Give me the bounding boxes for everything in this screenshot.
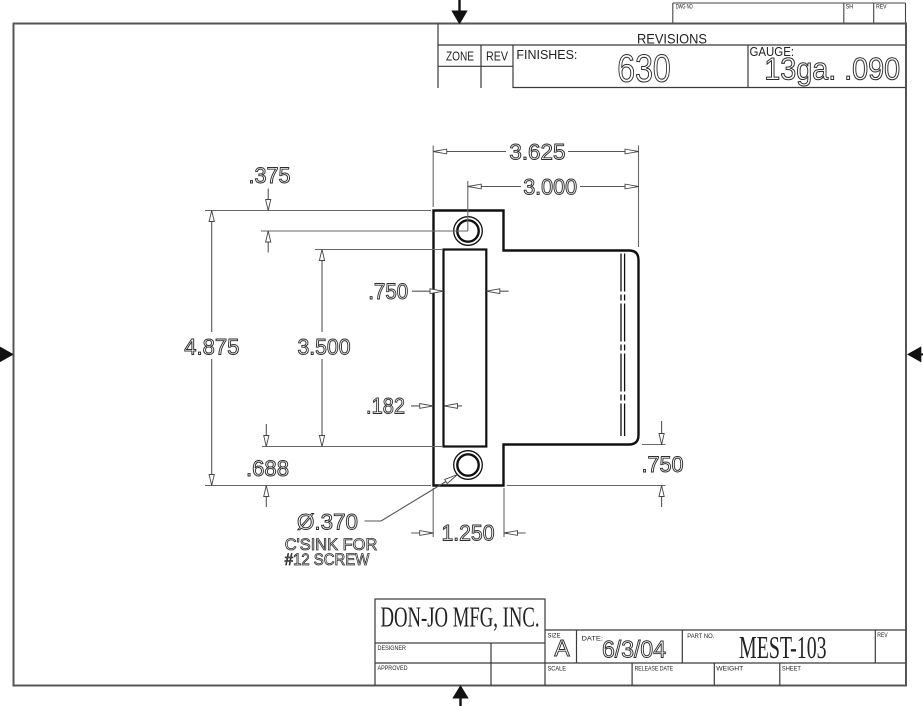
svg-text:ZONE: ZONE	[446, 50, 474, 64]
svg-text:SCALE: SCALE	[548, 666, 567, 673]
svg-text:APPROVED: APPROVED	[378, 665, 408, 672]
svg-text:SH: SH	[846, 5, 854, 11]
svg-text:3.500: 3.500	[298, 335, 351, 360]
svg-text:SHEET: SHEET	[782, 666, 801, 673]
svg-text:DATE:: DATE:	[582, 636, 604, 643]
svg-text:REV: REV	[877, 632, 888, 639]
svg-text:13ga. .090: 13ga. .090	[764, 51, 900, 87]
svg-text:DON-JO MFG, INC.: DON-JO MFG, INC.	[381, 603, 540, 634]
svg-text:DESIGNER: DESIGNER	[378, 645, 407, 652]
svg-text:1.250: 1.250	[442, 521, 495, 546]
svg-text:A: A	[554, 635, 570, 661]
svg-text:.688: .688	[246, 456, 289, 481]
svg-text:REVISIONS: REVISIONS	[637, 31, 707, 47]
svg-text:.750: .750	[642, 452, 684, 477]
svg-text:DWG NO: DWG NO	[676, 5, 693, 11]
svg-text:.375: .375	[249, 163, 291, 188]
svg-text:REV: REV	[486, 50, 509, 64]
svg-text:#12 SCREW: #12 SCREW	[285, 550, 370, 569]
svg-text:RELEASE DATE: RELEASE DATE	[635, 666, 674, 673]
svg-text:PART NO.: PART NO.	[687, 633, 714, 640]
svg-text:3.625: 3.625	[509, 140, 565, 165]
svg-text:3.000: 3.000	[523, 175, 577, 200]
svg-text:FINISHES:: FINISHES:	[516, 48, 577, 62]
svg-text:WEIGHT: WEIGHT	[716, 666, 743, 673]
svg-text:.750: .750	[368, 279, 408, 304]
svg-text:Ø.370: Ø.370	[297, 510, 358, 535]
svg-text:630: 630	[617, 48, 671, 91]
svg-text:6/3/04: 6/3/04	[602, 637, 666, 664]
svg-text:MEST-103: MEST-103	[739, 629, 827, 665]
svg-text:.182: .182	[366, 394, 405, 419]
svg-text:REV: REV	[876, 5, 887, 11]
svg-text:4.875: 4.875	[184, 335, 239, 360]
